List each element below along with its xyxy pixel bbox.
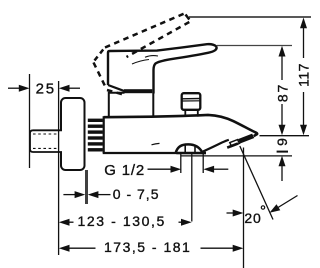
dimension 25 left extension line (wall plane)	[29, 74, 31, 168]
spout underside curve	[203, 140, 229, 152]
aerator slanted face segment 1	[230, 140, 240, 147]
G 1/2 leader arrow left	[148, 168, 172, 170]
20 degree horizontal arrow	[227, 212, 234, 214]
inlet extension line left	[180, 153, 182, 173]
dimension 0-7,5 arrows	[63, 194, 75, 196]
body part line mark	[152, 143, 160, 144]
inlet center extension line (123-130,5)	[191, 153, 193, 222]
dimension 117 vertical line with arrows	[300, 18, 307, 29]
handle skirt slant	[108, 85, 125, 91]
dimension 123-130,5 left arrow	[59, 219, 70, 226]
handle lever body outline	[108, 44, 217, 93]
svg-text:123 - 130,5: 123 - 130,5	[78, 213, 166, 229]
dimension 25 arrows	[8, 87, 20, 89]
inlet extension line right	[202, 153, 204, 173]
spout outlet extension line (vertical, 20 deg reference)	[243, 148, 245, 268]
117 top extension line (raised lever)	[189, 16, 311, 18]
dome base plate	[176, 152, 206, 155]
dimension 173,5-181 left arrow	[59, 245, 70, 252]
mixer body top edge and spout top curve	[104, 115, 257, 136]
diverter knob groove line	[182, 98, 200, 100]
mixer body left edge	[103, 116, 105, 153]
svg-text:87: 87	[275, 83, 291, 102]
dimension 9 up arrow	[279, 156, 286, 167]
20 degree slanted line	[240, 146, 273, 220]
dimension 87 vertical line with arrows	[279, 46, 286, 57]
svg-text:0 - 7,5: 0 - 7,5	[113, 186, 160, 202]
pump dome on body bottom	[176, 144, 203, 152]
wire: dashed raised-lever left face	[94, 63, 107, 90]
union thread dashes bottom	[33, 147, 58, 149]
spout tip extension line (bottom ref)	[260, 135, 310, 137]
svg-text:173,5 - 181: 173,5 - 181	[104, 239, 191, 255]
aerator slanted face segment 2	[239, 134, 254, 143]
dimension left long extension line (escutcheon back face)	[58, 81, 60, 255]
svg-text:20: 20	[244, 210, 261, 226]
mixer body bottom edge	[103, 152, 206, 154]
escutcheon front face extension line (0-7.5)	[86, 170, 87, 204]
knurled connection nut	[88, 119, 103, 152]
svg-text:117: 117	[296, 63, 312, 87]
wire: dashed raised-lever top edge	[105, 13, 186, 48]
wire: dashed raised-lever tip cap	[186, 15, 190, 20]
dimension 9 tick line	[277, 151, 288, 153]
aerator lower lip	[227, 144, 238, 148]
G 1/2 leader arrow right	[213, 168, 228, 170]
svg-text:9: 9	[274, 138, 290, 146]
handle skirt dark band	[124, 89, 152, 93]
diverter knob upper block	[182, 93, 201, 110]
diverter knob base	[185, 110, 198, 117]
dimension 173,5-181 right arrow	[201, 247, 234, 249]
handle inner contour line	[132, 60, 149, 65]
dimension 123-130,5 right arrow	[179, 221, 182, 223]
svg-text:G 1/2: G 1/2	[104, 162, 145, 179]
wire: dashed raised-lever underside	[127, 22, 190, 57]
svg-text:25: 25	[36, 81, 56, 98]
outlet plane horizontal line	[181, 155, 292, 157]
dome slot lines	[185, 145, 195, 153]
wall union	[30, 130, 62, 152]
20 degree slant arrow	[270, 204, 281, 213]
wire: dashed raised-lever skirt	[107, 90, 123, 95]
87 top extension line (lever tip)	[217, 45, 292, 47]
union thread dashes top	[33, 133, 58, 135]
cartridge tier under handle	[109, 93, 154, 117]
escutcheon	[61, 98, 85, 170]
